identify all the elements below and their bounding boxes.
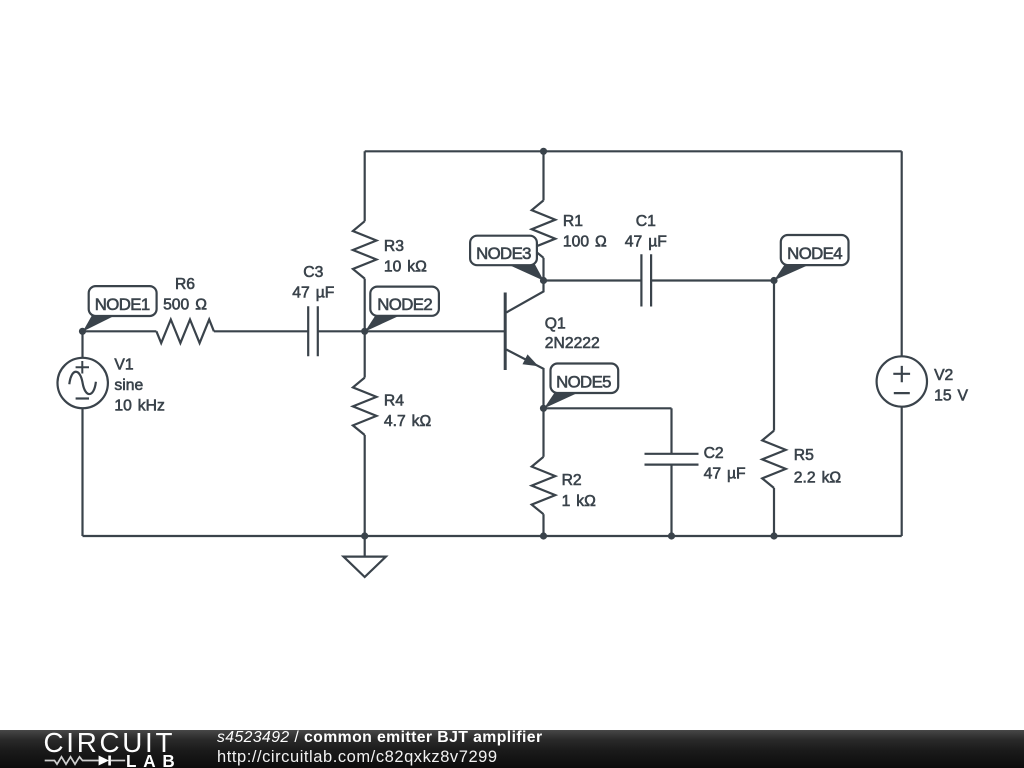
wire top rail to R3 [364,151,366,221]
svg-text:15 V: 15 V [934,387,968,404]
node NODE4 junction [770,277,777,284]
wire C2 lower lead [670,465,672,536]
resistor R6 [156,319,214,343]
wire emitter rail NODE5 to C2 [544,407,672,409]
svg-text:R2: R2 [562,472,582,489]
wire left rail upper (NODE1 to V1) [81,331,83,358]
svg-text:10 kΩ: 10 kΩ [384,259,427,276]
svg-text:2.2 kΩ: 2.2 kΩ [794,469,842,486]
resistor R2 [532,457,556,514]
svg-text:C1: C1 [636,213,656,230]
transistor Q1 [505,281,543,409]
svg-text:47 µF: 47 µF [704,466,746,483]
wire NODE4 to R5 [773,281,775,431]
wire right rail lower (V2 to bottom rail) [901,407,903,536]
source V1 [57,358,107,408]
wire top rail to R1 [542,151,544,200]
node label NODE5 [544,364,618,409]
wire NODE2 to R4 [364,331,366,377]
ground [344,536,386,577]
capacitor C1 [641,254,651,306]
node label NODE2 [365,287,439,332]
wire collector rail NODE3 to C1 [544,279,642,281]
svg-text:10 kHz: 10 kHz [114,398,165,415]
wire bottom rail [83,535,902,537]
wire R1 to NODE3 [542,258,544,281]
svg-text:V2: V2 [934,367,953,384]
svg-text:47 µF: 47 µF [292,285,334,302]
wire top rail [365,150,902,152]
footer bar [0,730,1024,768]
svg-text:R6: R6 [175,276,195,293]
source V2 [877,356,927,406]
node label NODE3 [470,236,544,281]
capacitor C3 [308,306,318,356]
svg-text:47 µF: 47 µF [625,233,667,250]
wire NODE5 to R2 [542,408,544,457]
node NODE3 junction [540,277,547,284]
svg-text:C2: C2 [704,445,724,462]
wire C3 to Q1 base (through NODE2) [318,330,505,332]
wire R6 to C3 [214,330,308,332]
svg-text:R5: R5 [794,447,814,464]
svg-text:NODE4: NODE4 [787,244,842,263]
logo LAB word [126,753,182,768]
logo resistor-diode symbol [44,753,174,768]
footer title line [217,730,543,747]
wire left rail lower (V1 to bottom rail) [81,408,83,536]
wire R5 to bottom rail [773,488,775,536]
wire input rail NODE1 to R6 [83,330,157,332]
footer url line [217,749,498,766]
capacitor C2 [645,454,699,465]
resistor R4 [353,378,377,435]
svg-text:V1: V1 [114,357,133,374]
wire C1 to NODE4 [651,279,774,281]
svg-text:Q1: Q1 [545,315,566,332]
svg-text:NODE1: NODE1 [95,295,150,314]
wire R2 to bottom rail [542,514,544,536]
svg-text:R1: R1 [563,213,583,230]
node label NODE1 [83,286,157,331]
svg-text:2N2222: 2N2222 [545,335,600,352]
logo CIRCUIT word [44,727,176,759]
wire right rail upper (V2 to top rail) [901,151,903,357]
node NODE2 junction [361,328,368,335]
svg-text:4.7 kΩ: 4.7 kΩ [384,413,432,430]
svg-text:NODE3: NODE3 [476,244,531,263]
node R2 bottom junction [540,532,547,539]
svg-text:R4: R4 [384,392,404,409]
svg-text:1 kΩ: 1 kΩ [562,493,597,510]
node ground junction [361,532,368,539]
node NODE5 junction [540,405,547,412]
node label NODE4 [774,235,849,280]
wire C2 upper lead [670,408,672,454]
node junction top rail / R1 [540,148,547,155]
svg-text:NODE2: NODE2 [377,295,432,314]
svg-text:R3: R3 [384,238,404,255]
svg-text:NODE5: NODE5 [556,373,611,392]
svg-text:C3: C3 [303,264,323,281]
resistor R3 [353,221,377,278]
node C2 bottom junction [668,532,675,539]
node NODE1 junction [79,328,86,335]
resistor R5 [762,431,786,488]
node R5 bottom junction [770,532,777,539]
wire R4 to bottom rail [364,435,366,536]
svg-text:100 Ω: 100 Ω [563,233,607,250]
wire R3 to NODE2 [364,279,366,332]
resistor R1 [532,200,556,257]
svg-text:500 Ω: 500 Ω [163,297,207,314]
svg-text:sine: sine [114,377,143,394]
